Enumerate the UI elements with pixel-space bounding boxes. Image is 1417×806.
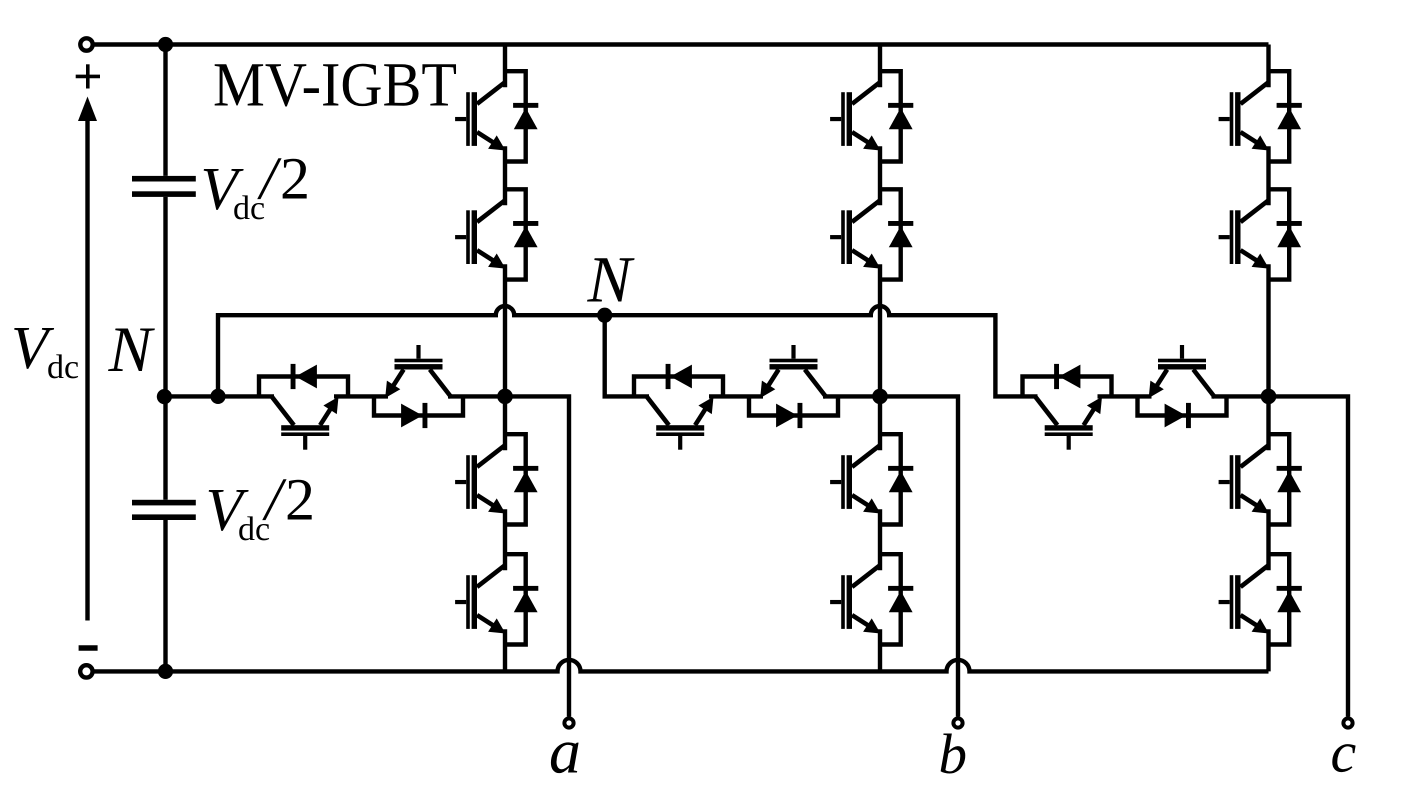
diode D11a (clamp, points left, phase b) [666,364,692,389]
transistor Q17 (clamp IGBT gate-down, phase c) [1036,397,1102,450]
svg-text:2: 2 [285,467,315,533]
diode D1 (antiparallel with Q1) [513,103,538,129]
svg-text:N: N [108,314,156,386]
wire: diode branch loop of unit lower-outer phase a [505,554,526,644]
wire: phase b leg vertical [878,45,882,672]
svg-text:/: / [257,146,282,213]
transistor Q14 (upper-inner MV-IGBT, phase c) [1219,200,1269,268]
junction dot: neutral point N on bus [157,389,172,404]
capacitor C1 (Vdc/2, upper) [132,176,196,197]
diode D11b (clamp, points right, phase b) [776,403,802,428]
wire: diode branch loop of unit upper-inner phase a [505,189,526,279]
diode D2 (antiparallel with Q2) [513,221,538,247]
wire: diode branch loop of unit lower-outer phase c [1269,554,1290,644]
svg-text:MV-IGBT: MV-IGBT [213,49,457,119]
wire: bottom DC- rail (hops over phase a and b output drops) [92,660,1268,672]
wire: diode branch loop of unit upper-outer phase a [505,71,526,161]
node: positive DC terminal (open circle, top left) [80,38,92,50]
svg-text:2: 2 [280,146,310,212]
transistor Q16 (lower-outer MV-IGBT, phase c) [1219,565,1269,633]
transistor Q6 (clamp IGBT gate-up, phase a) [385,345,451,398]
transistor Q18 (clamp IGBT gate-up, phase c) [1149,345,1215,398]
svg-text:c: c [1331,720,1357,785]
transistor Q9 (lower-inner MV-IGBT, phase b) [830,445,880,513]
wire: phase c leg vertical [1266,45,1270,672]
wire: clamp diode loop upper (phase c) [1023,377,1112,397]
wire: DC bus vertical (middle segment) [163,197,167,500]
junction dot: bus to top rail [158,37,173,52]
svg-text:N: N [587,243,636,316]
node: negative DC terminal (open circle, bottom left) [80,665,92,677]
diode D7 (antiparallel with Q7) [888,103,913,129]
diode D17a (clamp, points left, phase c) [1054,364,1080,389]
wire: link between clamp switches (phase a) [334,394,388,398]
wire: DC bus vertical (lower segment) [163,520,167,671]
label - (negative polarity) [79,645,98,650]
junction dot: phase b midpoint [872,389,888,405]
node: output terminal b (open circle) [953,718,962,727]
junction dot: N wire tee [210,389,225,404]
transistor Q13 (upper-outer MV-IGBT, phase c) [1219,82,1269,150]
label + (positive polarity) [76,64,100,88]
wire: diode branch loop of unit lower-inner phase c [1269,434,1290,524]
wire: neutral rail drop to phase b T-branch [605,315,649,396]
diode D8 (antiparallel with Q8) [888,221,913,247]
junction dot: phase a midpoint [497,389,513,405]
junction dot: phase c midpoint [1261,389,1277,405]
transistor Q3 (lower-inner MV-IGBT, phase a) [455,445,505,513]
wire: neutral rail riser and horizontal run (hops over phase a and b legs, feeds phase c T-branch) [218,306,1038,396]
junction dot: bus to bottom rail [158,664,173,679]
wire: diode branch loop of unit lower-inner phase a [505,434,526,524]
wire: clamp diode loop upper (phase a) [259,377,348,397]
wire: phase a leg vertical [503,45,507,672]
svg-text:a: a [549,716,581,787]
wire: top DC+ rail [93,42,1269,46]
diode D9 (antiparallel with Q9) [888,466,913,492]
node: output terminal c (open circle) [1343,718,1352,727]
diode D5b (clamp, points right, phase a) [401,403,427,428]
wire: diode branch loop of unit upper-outer phase b [880,71,901,161]
diode D14 (antiparallel with Q14) [1277,221,1302,247]
wire: diode branch loop of unit upper-inner phase c [1269,189,1290,279]
wire: N node to T-branch input of phase a [162,394,274,398]
wire: clamp output link (phase a) [448,394,505,398]
diode D15 (antiparallel with Q15) [1277,466,1302,492]
diode D13 (antiparallel with Q13) [1277,103,1302,129]
transistor Q15 (lower-inner MV-IGBT, phase c) [1219,445,1269,513]
transistor Q4 (lower-outer MV-IGBT, phase a) [455,565,505,633]
diode D17b (clamp, points right, phase c) [1165,403,1191,428]
transistor Q5 (clamp IGBT gate-down, phase a) [272,397,338,450]
wire: diode branch loop of unit upper-outer phase c [1269,71,1290,161]
node: output terminal a (open circle) [564,718,573,727]
wire: clamp diode loop lower (phase c) [1138,396,1227,415]
diode D10 (antiparallel with Q10) [888,586,913,612]
wire: clamp diode loop upper (phase b) [634,377,723,397]
wire: phase b output (to terminal b) [880,396,958,716]
wire: DC bus vertical (upper segment) [163,45,167,176]
transistor Q10 (lower-outer MV-IGBT, phase b) [830,565,880,633]
diode D3 (antiparallel with Q3) [513,466,538,492]
Vdc measurement arrow (points up) [78,97,97,621]
transistor Q2 (upper-inner MV-IGBT, phase a) [455,200,505,268]
diode D16 (antiparallel with Q16) [1277,586,1302,612]
svg-text:b: b [939,723,968,786]
wire: link between clamp switches (phase c) [1098,394,1152,398]
wire: clamp diode loop lower (phase b) [749,396,838,415]
wire: clamp output link (phase c) [1212,394,1269,398]
wire: clamp diode loop lower (phase a) [374,396,463,415]
wire: diode branch loop of unit lower-outer phase b [880,554,901,644]
wire: phase a output (to terminal a) [505,396,569,716]
junction dot: node N on neutral rail [597,308,612,323]
transistor Q1 (upper-outer MV-IGBT, phase a) [455,82,505,150]
svg-text:/: / [262,467,287,534]
capacitor C2 (Vdc/2, lower) [132,500,196,520]
diode D5a (clamp, points left, phase a) [291,364,317,389]
diode D4 (antiparallel with Q4) [513,586,538,612]
wire: diode branch loop of unit upper-inner phase b [880,189,901,279]
wire: clamp output link (phase b) [823,394,880,398]
transistor Q11 (clamp IGBT gate-down, phase b) [647,397,713,450]
transistor Q7 (upper-outer MV-IGBT, phase b) [830,82,880,150]
transistor Q12 (clamp IGBT gate-up, phase b) [760,345,826,398]
wire: phase c output (to terminal c) [1269,396,1349,716]
svg-text:dc: dc [47,349,79,386]
wire: link between clamp switches (phase b) [709,394,763,398]
wire: diode branch loop of unit lower-inner phase b [880,434,901,524]
transistor Q8 (upper-inner MV-IGBT, phase b) [830,200,880,268]
